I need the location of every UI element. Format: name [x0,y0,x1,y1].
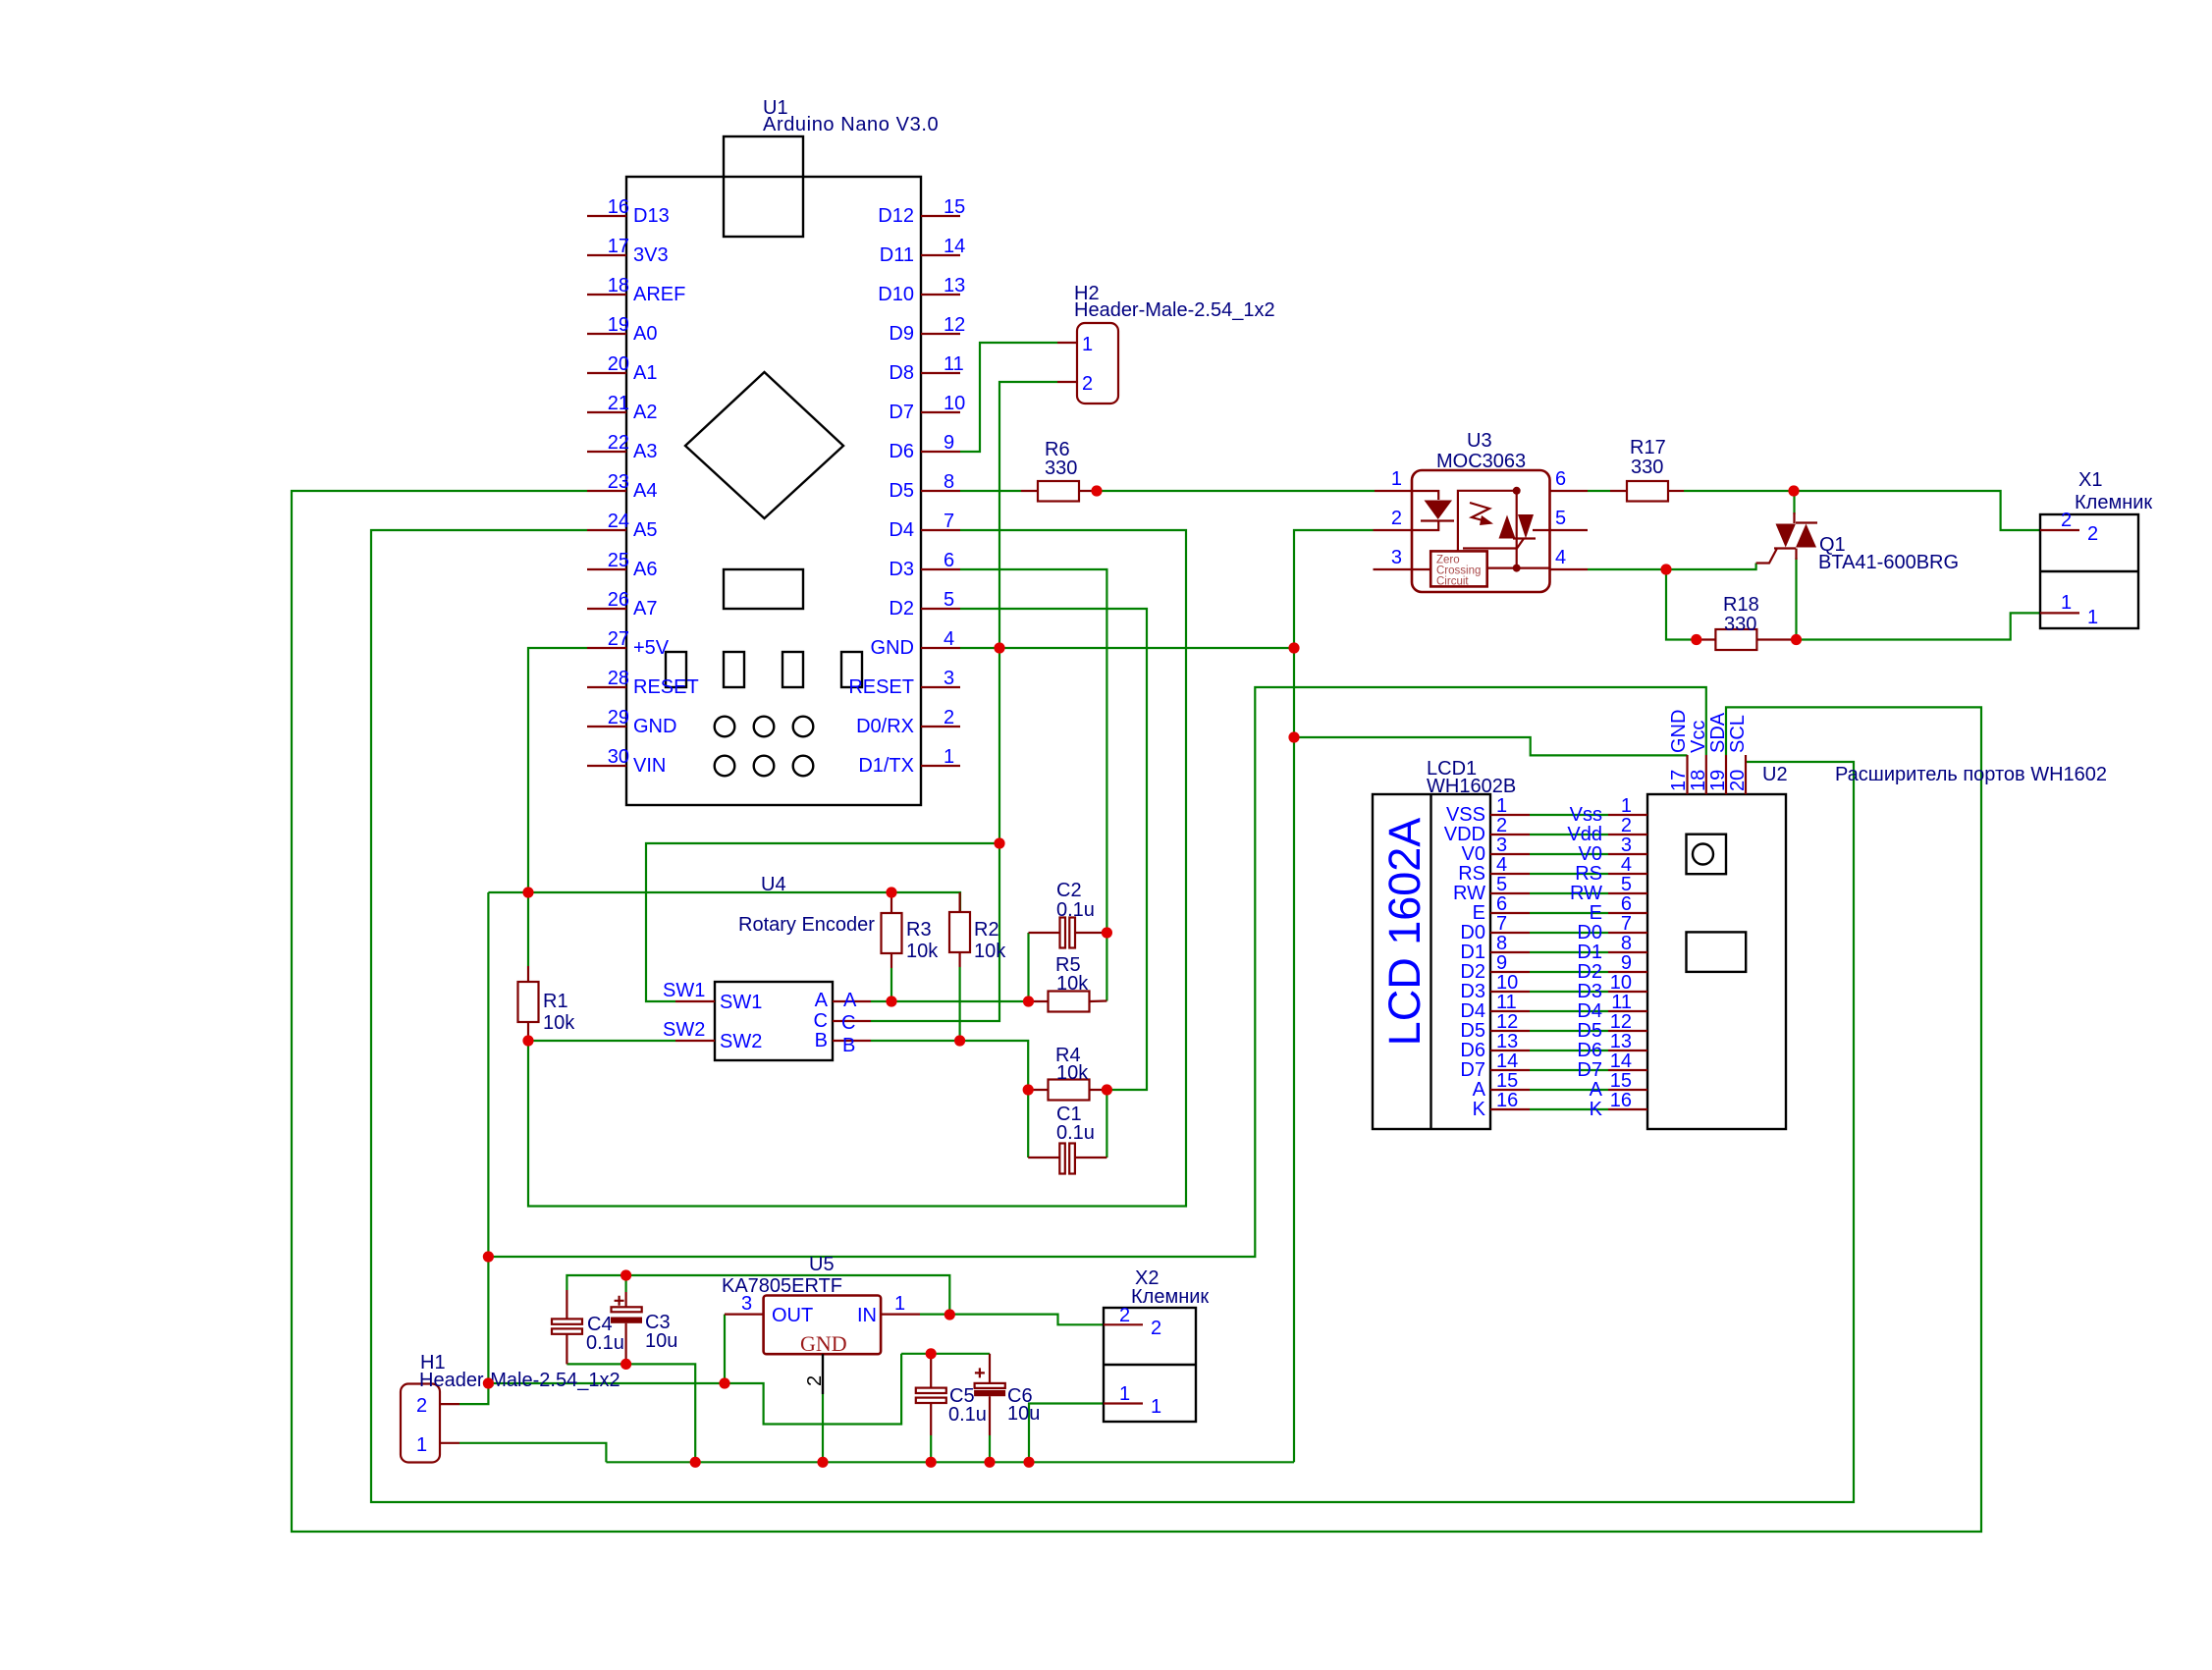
Q1 bottom lead [1795,549,1797,561]
resistor R6 [1038,481,1079,502]
C6 top lead [989,1354,991,1383]
svg-text:10: 10 [944,393,965,414]
U3 pin 4 [1550,568,1589,570]
U3 internal light arrow [1470,503,1489,521]
U3 internal LED cathode lead [1412,521,1438,531]
svg-text:AREF: AREF [633,284,685,305]
svg-text:2: 2 [1082,373,1093,395]
svg-text:D8: D8 [889,362,914,384]
svg-text:25: 25 [608,550,629,571]
header H1 [401,1384,440,1463]
wire R4 right down to C1 right [1106,1090,1107,1158]
wire net D6 to H2 pin1 [960,343,1057,452]
svg-text:VIN: VIN [633,755,666,777]
U3 internal junction top [1513,487,1521,495]
svg-text:SW1: SW1 [663,980,705,1001]
LCD1 pin names [1444,804,1486,1120]
svg-text:K: K [1590,1099,1603,1120]
svg-text:BTA41-600BRG: BTA41-600BRG [1818,552,1959,573]
svg-text:9: 9 [1621,952,1632,974]
svg-text:A: A [843,990,857,1011]
Arduino Nano U1 body [626,177,921,805]
svg-text:5: 5 [1621,874,1632,895]
rotary encoder U4 box [715,982,833,1060]
wire OUT rail y1409 [488,1354,901,1425]
R3 bottom lead [890,953,892,968]
triac Q1 top lead [1793,512,1795,523]
svg-text:LCD 1602A: LCD 1602A [1379,818,1430,1047]
capacitor C4 plate1 [552,1319,582,1323]
wire net A5 SCL long [371,530,1854,1502]
svg-text:3: 3 [1621,835,1632,856]
svg-text:4: 4 [1621,854,1632,876]
R5 right lead [1090,999,1107,1002]
svg-text:1: 1 [1151,1396,1161,1418]
svg-text:R18: R18 [1723,594,1759,616]
svg-text:D3: D3 [1577,981,1602,1002]
C1 right lead [1075,1157,1107,1158]
C6 bottom plate filled [974,1390,1005,1396]
svg-text:V0: V0 [1579,843,1602,865]
C1 left lead [1028,1157,1059,1158]
svg-text:20: 20 [608,353,629,375]
R1 top lead [527,966,529,982]
svg-text:5: 5 [1496,874,1507,895]
wire net A4 SDA long [292,491,1981,1532]
svg-text:D1/TX: D1/TX [858,755,914,777]
R6 leads [1021,490,1038,492]
wire C5 bottom [930,1435,932,1462]
svg-text:A4: A4 [633,480,657,502]
svg-text:1: 1 [416,1434,427,1456]
svg-text:A6: A6 [633,559,657,580]
svg-text:13: 13 [944,275,965,296]
U1 left pin numbers [608,196,629,768]
wire C5 C6 top rail [901,1353,990,1355]
svg-text:10k: 10k [543,1012,575,1034]
U4 pin SW2 [675,1040,715,1042]
svg-text:6: 6 [1496,893,1507,915]
svg-text:0.1u: 0.1u [1056,899,1095,921]
wire gate jog [1666,564,1756,570]
wire R18 right to X1 pin1 [1797,613,2041,639]
svg-text:10u: 10u [1007,1403,1040,1425]
terminal block X1 [2040,514,2138,628]
resistor R18 [1715,629,1756,650]
resistor R4 [1049,1080,1090,1101]
svg-text:D2: D2 [889,598,914,620]
U5 pin 1 IN [881,1313,920,1315]
C1 plate2 [1069,1144,1075,1174]
U2 button circle [1693,844,1713,865]
Q1 bottom bar [1774,547,1796,549]
svg-text:4: 4 [1496,854,1507,876]
svg-text:5: 5 [944,589,954,611]
svg-text:D12: D12 [878,205,914,227]
svg-text:Расширитель портов WH1602: Расширитель портов WH1602 [1835,764,2107,785]
X1 pin 1 [2040,612,2079,614]
svg-text:R3: R3 [906,919,932,941]
wire SW2 to R1 junction [528,1040,675,1042]
svg-text:3: 3 [1391,547,1402,568]
svg-text:Vdd: Vdd [1567,824,1602,845]
R17 leads [1610,490,1627,492]
svg-text:1: 1 [894,1293,905,1315]
resistor R1 [518,982,539,1022]
wire SW1 to GND rail y859 [646,843,999,1001]
svg-text:SDA: SDA [1707,712,1729,753]
svg-text:R2: R2 [974,919,999,941]
wire R2 bottom to B [958,967,960,1041]
svg-text:U2: U2 [1762,764,1788,785]
svg-text:A: A [1473,1079,1486,1101]
wire LCD to U2 pin lines 1-16 [1530,815,1608,1109]
svg-text:2: 2 [1496,815,1507,836]
svg-text:10k: 10k [1056,1062,1089,1084]
svg-text:D1: D1 [1460,942,1485,963]
svg-text:11: 11 [1496,992,1517,1013]
svg-text:RS: RS [1575,863,1602,885]
svg-text:2: 2 [2061,510,2072,531]
U2 pin numbers [1610,795,1632,1111]
svg-text:3: 3 [741,1293,752,1315]
wire +5V vertical to H1 pin2 [459,892,488,1404]
svg-text:A: A [815,990,829,1011]
svg-text:24: 24 [608,511,629,532]
svg-text:Header-Male-2.54_1x2: Header-Male-2.54_1x2 [419,1370,620,1391]
C6 bottom lead [989,1396,991,1435]
svg-text:GND: GND [1668,710,1690,753]
svg-text:7: 7 [1621,913,1632,935]
svg-text:SW2: SW2 [720,1031,762,1052]
svg-text:D7: D7 [1460,1059,1485,1081]
U2 top pin 18 [1705,755,1707,794]
C3 bottom lead [624,1323,626,1365]
svg-text:1: 1 [1119,1383,1130,1405]
svg-text:2: 2 [1151,1318,1161,1339]
wire encoder B to R4 left [871,1041,1028,1090]
wire R6 to U3 pin1 [1096,490,1375,492]
C4 plate2 [552,1328,582,1333]
C3 bottom plate filled [611,1318,642,1323]
svg-text:1: 1 [1496,795,1507,817]
svg-text:D4: D4 [1460,1000,1485,1022]
terminal block X2 [1104,1308,1196,1422]
wire Q1 MT2 top [1793,491,1795,514]
X2 pin 2 [1104,1323,1143,1325]
svg-text:R17: R17 [1630,437,1666,458]
svg-text:D11: D11 [880,244,914,266]
wire encoder A to R5 left [871,1000,1029,1002]
svg-text:Header-Male-2.54_1x2: Header-Male-2.54_1x2 [1074,299,1275,321]
svg-text:RESET: RESET [633,676,699,698]
U2 side pins [1608,815,1647,1109]
svg-text:18: 18 [608,275,629,296]
wire GND to U2 pin17 [1294,737,1688,755]
U2 top pin 17 [1686,755,1688,794]
wire net GND Arduino pin4 [960,647,1294,649]
svg-text:7: 7 [1496,913,1507,935]
svg-text:2: 2 [416,1395,427,1417]
svg-text:U3: U3 [1467,430,1492,452]
svg-text:RS: RS [1458,863,1485,885]
U3 internal junction bottom [1513,565,1521,572]
U4 pin A [833,1000,871,1002]
U1 left pins 16-30 [587,216,626,766]
svg-text:GND: GND [633,716,676,737]
svg-text:14: 14 [1610,1050,1632,1072]
LCD1 pins [1490,815,1530,1109]
svg-text:1: 1 [1621,795,1632,817]
svg-text:330: 330 [1724,614,1756,635]
svg-text:10k: 10k [1056,973,1089,995]
svg-text:10: 10 [1496,972,1518,994]
LCD1 divider [1430,794,1431,1129]
C5 top lead [930,1354,932,1388]
wire Q1 MT1 down to R18 right [1795,558,1797,640]
svg-text:11: 11 [944,353,964,375]
U1 small rect 4 [841,652,862,687]
svg-text:VSS: VSS [1446,804,1485,826]
U3 internal frame to zero crossing box [1458,491,1517,552]
C4 bottom lead [566,1334,567,1365]
svg-text:D1: D1 [1577,942,1602,963]
H1 pin 2 [440,1403,459,1405]
svg-text:Arduino Nano V3.0: Arduino Nano V3.0 [763,114,939,135]
svg-text:WH1602B: WH1602B [1427,776,1516,797]
svg-text:+5V: +5V [633,637,670,659]
wire C3 top lead join [624,1275,626,1292]
svg-text:SW1: SW1 [720,992,762,1013]
svg-text:7: 7 [944,511,954,532]
U3 pin3 inner lead [1412,568,1430,570]
wire U5 OUT down [724,1315,726,1383]
svg-text:A0: A0 [633,323,657,345]
wire X2 pin1 to gnd rail [1029,1404,1104,1463]
U3 zero crossing box [1430,551,1487,586]
wire U3 pin4 to R18 left [1588,569,1698,640]
svg-text:D13: D13 [633,205,670,227]
svg-text:1: 1 [944,746,954,768]
U3 pin 5 [1550,529,1589,531]
svg-text:A: A [1590,1079,1603,1101]
svg-text:0.1u: 0.1u [948,1404,987,1426]
svg-text:17: 17 [608,236,629,257]
svg-text:8: 8 [1621,933,1632,954]
svg-text:2: 2 [944,707,954,728]
wire net D4 to SW2 rail [528,530,1186,1207]
svg-text:RESET: RESET [848,676,914,698]
wire R3 top [890,892,892,897]
svg-text:29: 29 [608,707,629,728]
svg-text:Клемник: Клемник [1131,1286,1209,1308]
capacitor C1 plate1 [1059,1144,1065,1174]
wire net D5 to R6 [960,490,1021,492]
svg-text:26: 26 [608,589,629,611]
wire C2 left down to A [1027,933,1029,1001]
C4 top lead [566,1290,567,1319]
svg-text:D7: D7 [889,402,914,423]
svg-text:A7: A7 [633,598,657,620]
U3 pin 6 [1550,490,1589,492]
svg-text:15: 15 [1496,1070,1518,1092]
svg-text:U5: U5 [809,1254,835,1275]
svg-text:18: 18 [1688,770,1709,791]
U3 internal triac bar [1513,537,1536,539]
LCD1 outer box [1373,794,1490,1129]
svg-text:GND: GND [800,1331,847,1356]
wire +5V rail y909 [488,892,960,912]
U1 small rect 2 [724,652,744,687]
svg-text:15: 15 [944,196,965,218]
svg-text:SW2: SW2 [663,1019,705,1041]
resistor R3 [882,913,902,953]
wire +5V y1280 to U2 Vcc pin18 [488,687,1705,1257]
svg-text:17: 17 [1668,770,1690,791]
svg-text:D4: D4 [889,519,914,541]
C5 bottom lead [930,1403,932,1435]
svg-text:6: 6 [1555,468,1566,490]
svg-text:0.1u: 0.1u [586,1332,624,1354]
resistor R2 [949,912,970,952]
U1 diamond [685,372,843,518]
svg-text:12: 12 [1496,1011,1518,1033]
svg-text:13: 13 [1496,1031,1518,1052]
svg-text:10k: 10k [906,941,939,962]
wire C6 bottom [989,1435,991,1462]
U3 pin 2 [1374,529,1413,531]
svg-text:19: 19 [1707,770,1729,791]
svg-text:KA7805ERTF: KA7805ERTF [722,1275,842,1297]
svg-text:16: 16 [608,196,629,218]
svg-text:D6: D6 [1460,1040,1485,1061]
R18 right lead [1756,638,1796,640]
header H2 [1077,323,1118,404]
svg-text:1: 1 [2061,592,2072,614]
R18 leads [1698,638,1715,640]
U1 small rect 1 [666,652,686,687]
svg-text:1: 1 [2087,607,2098,628]
svg-text:23: 23 [608,471,629,493]
svg-text:0.1u: 0.1u [1056,1122,1095,1144]
port expander U2 box [1647,794,1786,1129]
svg-text:A5: A5 [633,519,657,541]
svg-text:28: 28 [608,668,629,689]
U3 pin 1 [1375,490,1412,492]
U3 internal arrow head [1480,515,1493,525]
svg-text:A1: A1 [633,362,657,384]
svg-text:MOC3063: MOC3063 [1436,451,1526,472]
R4 left lead [1028,1089,1048,1091]
X2 pin 1 [1104,1402,1143,1404]
svg-text:D6: D6 [1577,1040,1602,1061]
wire U5 IN to X2 pin2 [920,1315,1104,1325]
svg-text:6: 6 [1621,893,1632,915]
U2 inner rect [1687,932,1747,972]
svg-text:D5: D5 [889,480,914,502]
U2 top pin 19 [1725,755,1727,794]
regulator U5 box [764,1296,882,1355]
U3 internal LED anode lead [1412,491,1438,500]
svg-text:15: 15 [1610,1070,1632,1092]
svg-text:20: 20 [1727,770,1749,791]
C3 top lead [624,1292,626,1307]
svg-text:4: 4 [944,628,954,650]
wire R3 bottom to A [890,968,892,1001]
svg-text:U4: U4 [761,874,786,895]
R4 right lead [1090,1089,1107,1091]
wire net D2 to R4 right [960,609,1147,1090]
H2 pin 1 [1057,342,1077,344]
wire R1 top [527,892,529,966]
svg-text:4: 4 [1555,547,1566,568]
wire U3 pin2 to GND vertical [1294,530,1374,1462]
svg-text:RW: RW [1453,883,1485,904]
C2 right lead [1075,932,1106,934]
svg-text:V0: V0 [1462,843,1485,865]
svg-text:12: 12 [1610,1011,1632,1033]
svg-text:2: 2 [1621,815,1632,836]
U1 left pin names [633,205,699,777]
U4 pin B [833,1040,871,1042]
U1 right pin numbers [944,196,965,768]
svg-text:D4: D4 [1577,1000,1602,1022]
svg-text:A2: A2 [633,402,657,423]
svg-text:8: 8 [1496,933,1507,954]
wire U3 pin6 to R17 [1588,490,1610,492]
svg-text:RW: RW [1570,883,1602,904]
svg-text:E: E [1473,902,1485,924]
svg-text:D7: D7 [1577,1059,1602,1081]
X2 divider [1104,1364,1196,1366]
C2 left lead [1029,932,1060,934]
svg-text:16: 16 [1610,1090,1632,1111]
svg-text:21: 21 [608,393,629,414]
svg-text:14: 14 [1496,1050,1518,1072]
svg-text:2: 2 [1119,1305,1130,1326]
svg-text:K: K [1473,1099,1486,1120]
svg-text:2: 2 [804,1375,826,1386]
svg-text:14: 14 [944,236,965,257]
R2 top lead [958,892,960,912]
svg-text:D9: D9 [889,323,914,345]
Q1 gate lead [1756,549,1777,564]
C6 top plate [975,1383,1005,1388]
R1 bottom lead [527,1022,529,1041]
Q1 left triangle [1776,524,1797,548]
svg-text:1: 1 [1391,468,1402,490]
svg-text:330: 330 [1631,457,1663,478]
svg-text:22: 22 [608,432,629,454]
wire H2 pin2 down to encoder C [871,382,1057,1021]
svg-text:E: E [1590,902,1602,924]
wire +5V pin27 [528,648,587,892]
svg-text:13: 13 [1610,1031,1632,1052]
capacitor C5 plate1 [916,1388,946,1393]
wire U5 GND pin down [822,1394,824,1462]
Q1 top bar [1796,521,1817,523]
resistor R17 [1627,481,1668,502]
svg-text:D0: D0 [1577,922,1602,943]
optocoupler U3 box [1412,470,1550,592]
svg-text:Rotary Encoder: Rotary Encoder [738,914,875,936]
svg-text:Vss: Vss [1570,804,1602,826]
U2 button square [1687,835,1727,875]
U4 pin C [833,1020,871,1022]
wire C4 bottom to gnd jog [566,1364,695,1462]
svg-text:10: 10 [1610,972,1632,994]
Q1 right triangle [1796,524,1816,548]
